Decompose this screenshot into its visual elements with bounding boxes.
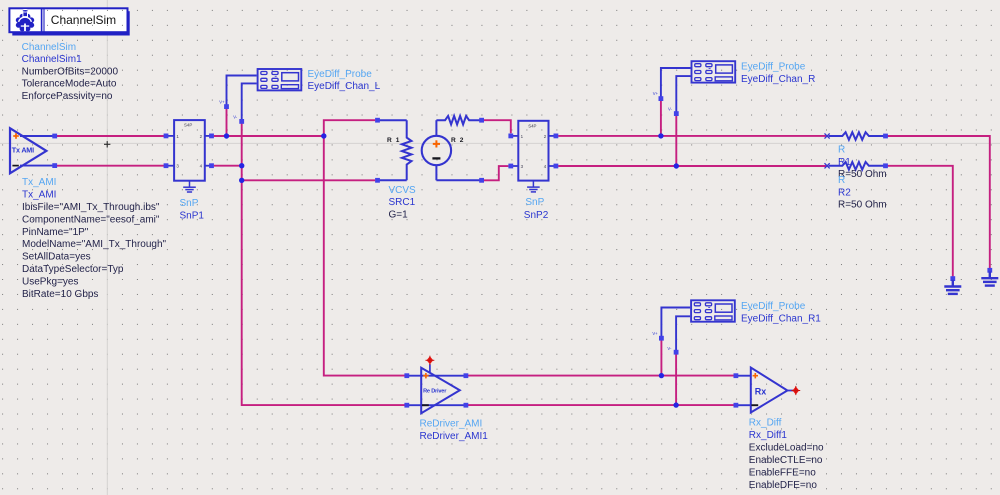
svg-text:Rx_Diff1: Rx_Diff1	[749, 430, 788, 441]
svg-text:EnforcePassivity=no: EnforcePassivity=no	[22, 91, 113, 102]
svg-text:V-: V-	[667, 346, 672, 351]
wire probe L V- lead	[242, 83, 257, 121]
ground SnP2	[527, 181, 540, 192]
pin SnP2-4	[554, 164, 559, 169]
svg-text:G=1: G=1	[389, 210, 409, 221]
pin SnP1-2	[209, 134, 214, 139]
pin SnP1-3	[164, 163, 169, 168]
svg-text:NumberOfBits=20000: NumberOfBits=20000	[22, 66, 119, 77]
label probe L	[308, 69, 381, 92]
junction node P1	[321, 133, 326, 138]
pin Rx in-	[734, 403, 739, 408]
ReDriver amplifier X2	[407, 364, 466, 413]
wire probe R1 V+ drop	[660, 340, 662, 375]
wire probe R V- lead	[676, 76, 690, 113]
Tx AMI source X1	[10, 128, 55, 173]
svg-text:EyeDiff_Chan_R: EyeDiff_Chan_R	[741, 74, 815, 85]
svg-text:ExcludeLoad=no: ExcludeLoad=no	[749, 443, 824, 454]
pin SnP2-1	[508, 134, 513, 139]
resistor R2 of VCVS	[436, 116, 481, 125]
pin VCVS in-	[375, 178, 380, 183]
terminal probe R V+	[659, 96, 664, 101]
svg-text:R1: R1	[838, 157, 851, 168]
wire ReDriver N out to Rx N input	[468, 404, 734, 406]
svg-text:ReDriver_AMI1: ReDriver_AMI1	[420, 431, 489, 442]
svg-text:UsePkg=yes: UsePkg=yes	[22, 276, 78, 287]
svg-text:V+: V+	[653, 91, 659, 96]
label block Rx_Diff	[749, 418, 824, 492]
terminal Rx out red	[791, 386, 800, 395]
svg-text:R: R	[838, 145, 845, 156]
svg-text:R=50 Ohm: R=50 Ohm	[838, 169, 887, 180]
svg-text:IbisFile="AMI_Tx_Through.ibs": IbisFile="AMI_Tx_Through.ibs"	[22, 202, 160, 213]
terminal probe L V+	[224, 104, 229, 109]
svg-text:ModelName="AMI_Tx_Through": ModelName="AMI_Tx_Through"	[22, 239, 167, 250]
svg-text:Rx: Rx	[755, 386, 767, 396]
pin SnP2-3	[508, 164, 513, 169]
svg-text:ReDriver_AMI: ReDriver_AMI	[420, 419, 483, 430]
svg-text:SetAllData=yes: SetAllData=yes	[22, 252, 91, 263]
svg-text:EyeDiff_Probe: EyeDiff_Probe	[741, 301, 806, 312]
pin ReDriver out+	[464, 373, 469, 378]
svg-text:Tx_AMI: Tx_AMI	[22, 177, 56, 188]
wire SnP2 pin4 to right R2	[558, 165, 826, 167]
svg-text:Re Driver: Re Driver	[423, 388, 447, 394]
label SnP2	[524, 197, 549, 221]
pin VCVS in+	[375, 118, 380, 123]
junction node P-probeR1	[659, 373, 664, 378]
svg-text:SnP2: SnP2	[524, 210, 549, 221]
wire probe L V- drop down to ReDriver N input	[242, 123, 405, 405]
svg-text:R 2: R 2	[451, 137, 465, 144]
junction node N-probeR1	[673, 402, 678, 407]
wire ReDriver P out to Rx P input	[468, 375, 734, 377]
pin Rx in+	[734, 373, 739, 378]
svg-text:PinName="1P": PinName="1P"	[22, 227, 89, 238]
label block ChannelSim1	[22, 42, 119, 102]
wire node N1 to VCVS minus	[242, 179, 376, 181]
label SnP1	[180, 198, 205, 221]
svg-text:SnP1: SnP1	[180, 211, 205, 222]
svg-text:R 1: R 1	[387, 137, 401, 144]
wire probe L V+ lead	[227, 76, 257, 107]
wire R2 out to SnP2 pin1	[484, 120, 511, 133]
svg-text:ToleranceMode=Auto: ToleranceMode=Auto	[22, 79, 117, 90]
wire probe R1 V- lead	[676, 316, 690, 351]
terminal probe L V-	[239, 119, 244, 124]
wire Tx N out to SnP1 pin3	[56, 165, 164, 167]
pin Tx P	[52, 134, 57, 139]
terminal probe R V-	[674, 111, 679, 116]
svg-text:R: R	[838, 175, 845, 186]
ground SnP1	[183, 181, 196, 192]
label probe R	[741, 62, 815, 85]
pin VCVS out+	[479, 118, 484, 123]
svg-text:V+: V+	[652, 331, 658, 336]
svg-text:EnableFFE=no: EnableFFE=no	[749, 468, 816, 479]
pin R2 right	[883, 163, 888, 168]
wire SnP1 pin2 to node P1	[214, 135, 324, 137]
terminal probe R1 V-	[674, 350, 679, 355]
wire right R1 to ground	[886, 136, 990, 268]
wire node P1 down to ReDriver P input	[324, 136, 405, 376]
wire Tx P out to SnP1 pin1	[56, 135, 164, 137]
pin SnP1-1	[164, 134, 169, 139]
svg-text:EyeDiff_Probe: EyeDiff_Probe	[308, 69, 373, 80]
probe EyeDiff_Chan_L icon U2	[258, 69, 302, 90]
svg-text:DataTypeSelector=Typ: DataTypeSelector=Typ	[22, 264, 124, 275]
svg-text:SnP: SnP	[180, 198, 199, 209]
svg-text:V+: V+	[219, 99, 225, 104]
label R2 right	[838, 175, 887, 211]
terminal gnd right2	[950, 276, 955, 281]
svg-text:V-: V-	[668, 106, 673, 111]
ground right2	[944, 280, 961, 294]
resistor R1 right	[829, 132, 884, 140]
terminal ReDriver top red	[426, 356, 435, 365]
wire probe R V+ drop	[660, 101, 662, 136]
wire probe R1 V- drop	[675, 354, 677, 405]
svg-text:Tx AMI: Tx AMI	[12, 146, 34, 155]
svg-text:V-: V-	[233, 114, 238, 119]
svg-text:SRC1: SRC1	[389, 197, 416, 208]
label VCVS SRC1	[389, 185, 417, 221]
svg-text:EyeDiff_Chan_R1: EyeDiff_Chan_R1	[741, 313, 821, 324]
Rx amplifier X3	[736, 368, 793, 413]
label ReDriver	[420, 419, 489, 442]
probe EyeDiff_Chan_R icon U3	[692, 61, 736, 82]
ChannelSim gear icon	[16, 10, 34, 32]
pin R1 right	[883, 134, 888, 139]
junction node P-probeL	[224, 133, 229, 138]
svg-text:ChannelSim: ChannelSim	[22, 42, 76, 53]
lead VCVS input top	[378, 119, 407, 121]
wire SnP1 pin4 to node N1	[214, 165, 242, 167]
svg-text:BitRate=10 Gbps: BitRate=10 Gbps	[22, 289, 98, 300]
svg-text:EnableDFE=no: EnableDFE=no	[749, 480, 818, 491]
junction node N-probeR	[674, 163, 679, 168]
junction node N-probeL	[239, 163, 244, 168]
pin SnP1-4	[209, 163, 214, 168]
terminal gnd right1	[987, 268, 992, 273]
SnP SnP2	[511, 121, 556, 181]
ChannelSim controller box	[9, 8, 129, 35]
label probe R1	[741, 301, 821, 324]
pin Tx N	[52, 163, 57, 168]
svg-text:ComponentName="eesof_ami": ComponentName="eesof_ami"	[22, 214, 160, 225]
svg-text:EyeDiff_Probe: EyeDiff_Probe	[741, 62, 806, 73]
axis lines	[106, 0, 108, 495]
ground right1	[981, 272, 998, 286]
lead VCVS input bottom	[378, 179, 407, 181]
SnP SnP1	[166, 120, 212, 181]
svg-text:Rx_Diff: Rx_Diff	[749, 418, 782, 429]
label R1 right	[838, 145, 887, 181]
probe EyeDiff_Chan_R1 icon U4	[691, 300, 735, 321]
pin ReDriver in+	[404, 373, 409, 378]
svg-text:VCVS: VCVS	[389, 185, 417, 196]
wire SnP2 pin2 to right R1	[558, 135, 826, 137]
wire probe R V- drop	[675, 116, 677, 166]
junction node P-probeR	[658, 133, 663, 138]
svg-text:S4P: S4P	[184, 123, 192, 128]
svg-text:S4P: S4P	[528, 123, 536, 128]
terminal probe R1 V+	[659, 336, 664, 341]
svg-text:EnableCTLE=no: EnableCTLE=no	[749, 455, 823, 466]
pin VCVS out-	[479, 178, 484, 183]
wire probe L V+ drop	[226, 109, 228, 137]
wire probe R V+ lead	[661, 68, 691, 98]
wire VCVS bottom to SnP2 pin3	[484, 166, 508, 180]
svg-text:R=50 Ohm: R=50 Ohm	[838, 200, 887, 211]
svg-text:EyeDiff_Chan_L: EyeDiff_Chan_L	[308, 81, 381, 92]
pin R1 left x	[825, 133, 830, 138]
VCVS source SRC1 circle	[422, 120, 482, 180]
junction node N-VCVS	[239, 178, 244, 183]
pin ReDriver out-	[464, 403, 469, 408]
svg-text:Tx_AMI: Tx_AMI	[22, 190, 56, 201]
svg-text:R2: R2	[838, 187, 851, 198]
origin crosshair	[104, 141, 110, 147]
svg-text:SnP: SnP	[525, 197, 544, 208]
svg-text:ChannelSim1: ChannelSim1	[22, 54, 82, 65]
resistor R1 of VCVS	[402, 120, 412, 180]
wire node P1 up to VCVS plus	[324, 120, 375, 136]
wire right R2 to ground	[886, 166, 953, 277]
pin SnP2-2	[554, 134, 559, 139]
pin R2 left x	[825, 163, 830, 168]
wire probe R1 V+ lead	[661, 308, 690, 338]
resistor R2 right	[829, 162, 884, 170]
pin ReDriver in-	[404, 403, 409, 408]
label block Tx_AMI	[22, 177, 167, 300]
